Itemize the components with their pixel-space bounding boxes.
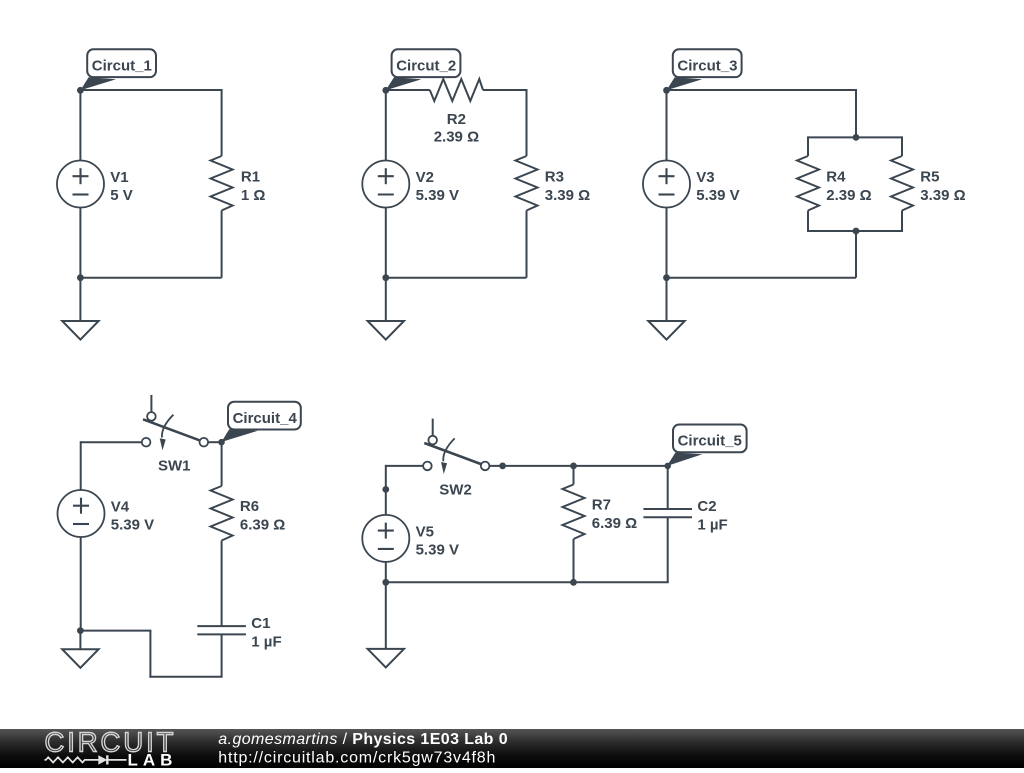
logo resistor squiggle and diode <box>45 755 127 764</box>
svg-text:2.39 Ω: 2.39 Ω <box>434 129 479 146</box>
svg-text:R2: R2 <box>447 111 466 128</box>
wire <box>526 211 528 278</box>
voltage source V3 <box>643 161 690 208</box>
wire <box>386 465 423 467</box>
svg-text:C2: C2 <box>697 498 716 515</box>
resistor R4 <box>797 156 819 211</box>
wire <box>221 634 223 676</box>
resistor R3 <box>516 156 538 211</box>
wire <box>667 89 857 91</box>
svg-text:R5: R5 <box>920 169 939 186</box>
svg-text:R6: R6 <box>240 498 259 515</box>
node Circuit_4 flag <box>221 402 300 442</box>
voltage source V4 <box>58 490 105 537</box>
junction <box>663 274 670 281</box>
junction <box>77 274 84 281</box>
switch SW1 <box>142 395 208 451</box>
junction <box>853 228 860 235</box>
voltage source V5 <box>362 515 409 562</box>
svg-text:R1: R1 <box>241 169 260 186</box>
junction <box>570 463 577 470</box>
junction <box>570 579 577 586</box>
wire <box>221 442 223 486</box>
svg-text:V5: V5 <box>416 523 434 540</box>
svg-text:SW2: SW2 <box>439 481 472 498</box>
svg-text:Circut_2: Circut_2 <box>396 58 456 75</box>
svg-text:V1: V1 <box>110 169 128 186</box>
wire <box>149 631 151 678</box>
wire <box>573 466 575 485</box>
svg-text:5.39 V: 5.39 V <box>111 517 154 534</box>
svg-text:5.39 V: 5.39 V <box>416 187 459 204</box>
wire <box>526 89 528 156</box>
wire <box>483 89 527 91</box>
svg-text:V2: V2 <box>416 169 434 186</box>
node Circut_2 <box>382 87 389 94</box>
wire <box>489 465 667 467</box>
wire <box>807 211 809 233</box>
voltage source V2 <box>362 161 409 208</box>
svg-text:a.gomesmartins / Physics 1E03: a.gomesmartins / Physics 1E03 Lab 0 <box>218 731 508 748</box>
wire <box>855 231 857 278</box>
ground <box>368 278 404 340</box>
node Circut_1 flag <box>80 49 156 90</box>
svg-text:6.39 Ω: 6.39 Ω <box>592 515 637 532</box>
node Circut_1 <box>77 87 84 94</box>
svg-text:2.39 Ω: 2.39 Ω <box>826 187 871 204</box>
svg-text:5.39 V: 5.39 V <box>696 187 739 204</box>
node Circuit_4 <box>218 439 225 446</box>
svg-text:R4: R4 <box>826 169 846 186</box>
ground <box>62 631 98 668</box>
svg-text:6.39 Ω: 6.39 Ω <box>240 516 285 533</box>
node Circut_3 <box>663 87 670 94</box>
wire <box>79 90 81 161</box>
resistor R5 <box>891 156 913 211</box>
junction <box>77 627 84 634</box>
wire <box>386 277 527 279</box>
svg-text:V4: V4 <box>111 498 130 515</box>
svg-text:SW1: SW1 <box>158 458 191 475</box>
wire <box>386 581 669 583</box>
wire <box>667 277 857 279</box>
wire <box>80 89 221 91</box>
svg-text:5 V: 5 V <box>110 187 133 204</box>
svg-text:V3: V3 <box>696 169 714 186</box>
ground <box>62 278 98 340</box>
junction <box>499 463 506 470</box>
wire <box>573 539 575 582</box>
wire <box>80 630 151 632</box>
svg-text:Circut_1: Circut_1 <box>92 58 152 75</box>
capacitor C1 <box>197 626 246 634</box>
wire <box>79 208 81 278</box>
node Circuit_5 <box>664 463 671 470</box>
node Circuit_5 flag <box>667 425 747 467</box>
svg-text:Circuit_4: Circuit_4 <box>233 410 298 427</box>
wire <box>808 136 902 138</box>
svg-text:5.39 V: 5.39 V <box>416 542 459 559</box>
junction <box>382 274 389 281</box>
wire <box>385 465 387 515</box>
wire <box>808 230 902 232</box>
resistor R7 <box>563 485 585 540</box>
svg-text:R3: R3 <box>545 169 564 186</box>
ground <box>648 278 684 340</box>
wire <box>386 89 430 91</box>
wire <box>149 676 222 678</box>
wire <box>81 441 142 443</box>
wire <box>385 208 387 278</box>
svg-text:3.39 Ω: 3.39 Ω <box>545 187 590 204</box>
svg-text:3.39 Ω: 3.39 Ω <box>920 187 965 204</box>
svg-text:1 µF: 1 µF <box>251 634 281 651</box>
wire <box>667 466 669 509</box>
junction <box>382 486 389 493</box>
resistor R6 <box>211 486 233 541</box>
footer bar <box>0 729 1024 768</box>
svg-text:C1: C1 <box>251 615 270 632</box>
wire <box>221 211 223 278</box>
wire <box>666 90 668 161</box>
wire <box>901 211 903 233</box>
wire <box>221 89 223 156</box>
wire <box>666 208 668 278</box>
svg-text:Circuit_5: Circuit_5 <box>678 433 742 450</box>
wire <box>80 277 221 279</box>
junction <box>853 134 860 141</box>
svg-text:R7: R7 <box>592 497 611 514</box>
wire <box>208 441 222 443</box>
switch SW2 <box>423 419 489 475</box>
voltage source V1 <box>57 161 104 208</box>
resistor R2 <box>430 79 483 101</box>
node Circut_2 flag <box>386 49 461 90</box>
wire <box>80 441 82 490</box>
resistor R1 <box>211 156 233 211</box>
wire <box>807 136 809 156</box>
svg-text:1 Ω: 1 Ω <box>241 187 266 204</box>
wire <box>221 541 223 627</box>
svg-text:1 µF: 1 µF <box>697 517 727 534</box>
wire <box>901 136 903 156</box>
junction <box>382 579 389 586</box>
wire <box>667 517 669 582</box>
wire <box>385 90 387 161</box>
svg-text:http://circuitlab.com/crk5gw73: http://circuitlab.com/crk5gw73v4f8h <box>218 749 496 766</box>
wire <box>80 537 82 631</box>
node Circut_3 flag <box>667 49 742 90</box>
wire <box>385 562 387 582</box>
svg-text:LAB: LAB <box>128 750 178 768</box>
svg-text:Circut_3: Circut_3 <box>677 58 737 75</box>
ground <box>368 582 404 667</box>
wire <box>855 89 857 137</box>
capacitor C2 <box>643 509 692 517</box>
